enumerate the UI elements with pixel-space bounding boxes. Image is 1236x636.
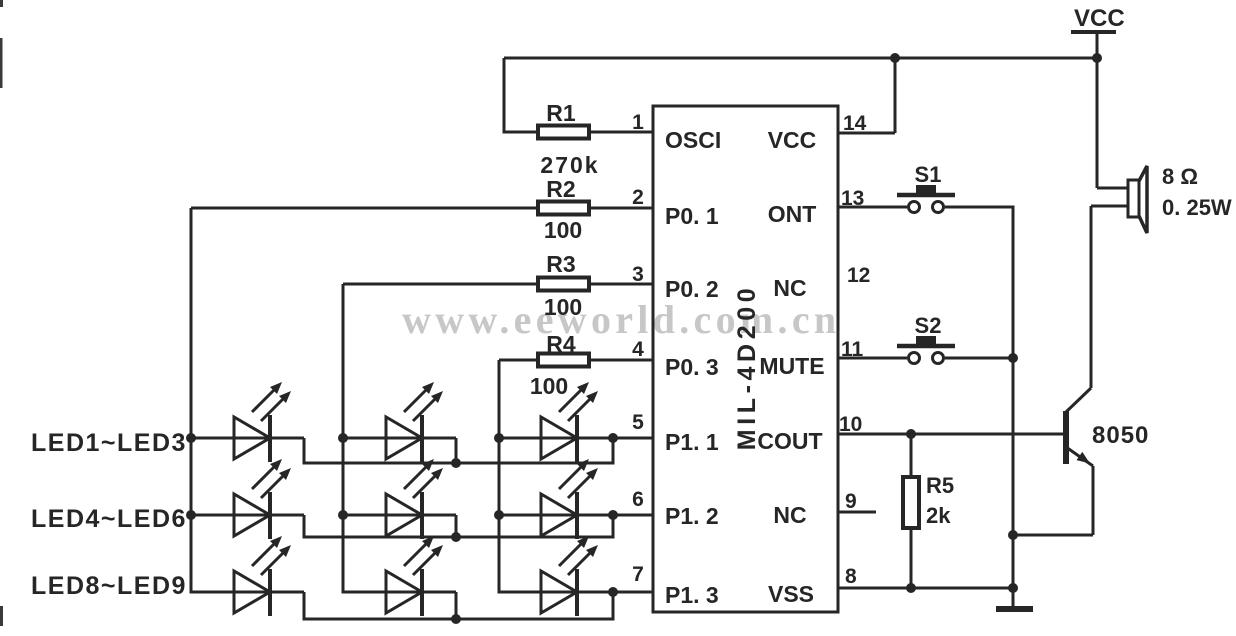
- svg-text:LED8~LED9: LED8~LED9: [31, 572, 187, 600]
- svg-text:P0. 2: P0. 2: [665, 276, 719, 302]
- svg-text:0. 25W: 0. 25W: [1162, 195, 1232, 220]
- svg-text:VCC: VCC: [1074, 5, 1125, 32]
- svg-text:LED1~LED3: LED1~LED3: [31, 429, 187, 457]
- svg-text:P0. 3: P0. 3: [665, 354, 719, 380]
- svg-text:6: 6: [632, 488, 644, 511]
- svg-text:R5: R5: [926, 473, 954, 498]
- svg-text:VSS: VSS: [768, 581, 814, 607]
- svg-text:OSCI: OSCI: [665, 127, 721, 153]
- svg-text:ONT: ONT: [768, 201, 817, 227]
- svg-text:100: 100: [544, 294, 582, 320]
- svg-text:1: 1: [632, 111, 644, 134]
- svg-text:5: 5: [632, 411, 644, 434]
- svg-text:3: 3: [632, 263, 644, 286]
- svg-text:R3: R3: [546, 251, 575, 277]
- svg-text:8 Ω: 8 Ω: [1162, 164, 1198, 189]
- svg-text:P1. 2: P1. 2: [665, 503, 719, 529]
- svg-text:S2: S2: [915, 313, 942, 338]
- svg-text:MIL-4D200: MIL-4D200: [733, 284, 761, 450]
- svg-text:R2: R2: [546, 176, 575, 202]
- svg-text:S1: S1: [915, 162, 942, 187]
- svg-text:www.eeworld.com.cn: www.eeworld.com.cn: [402, 297, 840, 342]
- svg-text:14: 14: [843, 112, 867, 135]
- svg-text:12: 12: [847, 264, 870, 287]
- svg-text:R1: R1: [546, 100, 576, 126]
- svg-text:11: 11: [841, 338, 864, 361]
- svg-text:4: 4: [632, 338, 644, 361]
- svg-text:2: 2: [632, 186, 644, 209]
- svg-text:8: 8: [845, 565, 857, 588]
- svg-text:13: 13: [841, 187, 864, 210]
- svg-text:MUTE: MUTE: [759, 353, 824, 379]
- svg-text:NC: NC: [773, 275, 806, 301]
- svg-text:VCC: VCC: [768, 127, 817, 153]
- svg-text:270k: 270k: [540, 152, 599, 178]
- svg-text:NC: NC: [773, 502, 806, 528]
- svg-text:COUT: COUT: [757, 428, 822, 454]
- svg-text:8050: 8050: [1092, 422, 1149, 449]
- svg-text:10: 10: [839, 413, 862, 436]
- svg-text:LED4~LED6: LED4~LED6: [31, 505, 187, 533]
- svg-text:P1. 3: P1. 3: [665, 582, 719, 608]
- svg-text:9: 9: [845, 490, 857, 513]
- svg-text:P0. 1: P0. 1: [665, 203, 719, 229]
- svg-text:2k: 2k: [926, 503, 951, 528]
- svg-text:100: 100: [530, 373, 568, 399]
- svg-text:100: 100: [544, 217, 582, 243]
- svg-text:7: 7: [632, 563, 644, 586]
- svg-text:R4: R4: [546, 331, 576, 357]
- svg-text:P1. 1: P1. 1: [665, 429, 719, 455]
